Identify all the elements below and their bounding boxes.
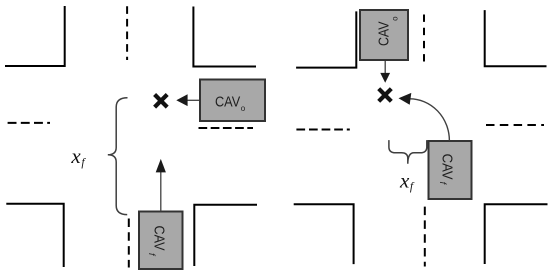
svg-text:CAV: CAV xyxy=(150,226,166,251)
box CAVo (right intersection, rotated text) xyxy=(360,10,408,60)
label xf (left intersection) xyxy=(70,144,86,169)
arrow from CAVo to X (left intersection) xyxy=(176,94,199,106)
dashed lane line right (left intersection) xyxy=(199,127,254,129)
svg-text:CAV: CAV xyxy=(377,21,393,46)
svg-text:o: o xyxy=(391,16,400,21)
road corner bottom-right (left intersection) xyxy=(194,205,257,266)
box CAVf (left intersection, rotated text) xyxy=(139,212,183,270)
road corner bottom-right (right intersection) xyxy=(485,204,548,264)
dashed lane line right (right intersection) xyxy=(486,124,544,126)
dashed lane line bottom (left intersection) xyxy=(128,219,130,268)
dashed lane line left (left intersection) xyxy=(8,122,50,124)
arrow down from CAVo (right intersection) xyxy=(380,61,390,83)
svg-text:o: o xyxy=(241,104,246,113)
dashed lane line top (left intersection) xyxy=(126,6,128,60)
label xf (right intersection) xyxy=(399,168,415,193)
svg-text:x: x xyxy=(399,168,410,192)
box CAVf (right intersection, rotated text) xyxy=(429,141,472,199)
box CAVo (left intersection) xyxy=(200,80,265,122)
dashed lane line bottom (right intersection) xyxy=(424,207,426,267)
dashed lane line top (right intersection) xyxy=(423,15,425,62)
road corner top-right (right intersection) xyxy=(485,10,547,66)
road corner bottom-left (left intersection) xyxy=(6,204,63,267)
dashed lane line left (right intersection) xyxy=(296,129,349,131)
svg-text:CAV: CAV xyxy=(215,94,240,110)
road corner top-right (left intersection) xyxy=(193,7,256,67)
curved arrow from CAVf to X (right intersection) xyxy=(399,93,450,141)
svg-text:f: f xyxy=(81,157,86,169)
svg-text:x: x xyxy=(70,144,81,168)
road corner top-left (left intersection) xyxy=(5,6,65,66)
road corner top-left (right intersection) xyxy=(296,11,356,67)
X mark merge point (right intersection) xyxy=(379,89,392,102)
svg-text:f: f xyxy=(410,181,415,193)
small curly brace xf span (right intersection) xyxy=(389,140,427,164)
road corner bottom-left (right intersection) xyxy=(294,204,354,264)
curly brace xf span (left intersection) xyxy=(108,98,128,215)
arrow up from CAVf (left intersection) xyxy=(156,159,166,212)
svg-text:CAV: CAV xyxy=(439,154,455,180)
X mark merge point (left intersection) xyxy=(155,95,168,108)
